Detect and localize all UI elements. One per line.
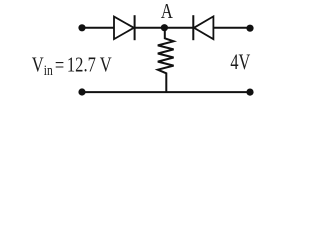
wire node A to D2 cathode [164,27,193,29]
diode D2 (right, cathode left / anode right) [193,15,213,40]
node A junction dot [161,24,168,31]
terminal dot bottom-right [246,89,253,96]
wire D2 anode to top-right terminal [213,27,250,29]
wire top-left segment [82,27,115,29]
diode D1 (left, anode left / cathode right) [114,15,135,40]
terminal dot top-left [78,24,85,31]
svg-text:A: A [161,0,173,23]
terminal dot top-right [246,25,253,32]
resistor R (node A to bottom rail) [158,29,174,92]
terminal dot bottom-left [78,88,85,95]
wire D1 cathode to node A [135,27,165,29]
svg-text:4V: 4V [230,51,250,75]
bottom rail wire [82,91,250,93]
